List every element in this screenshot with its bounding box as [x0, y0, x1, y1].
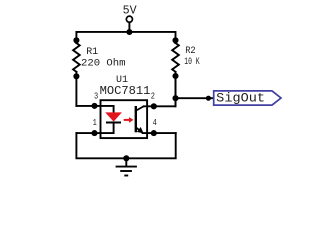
- svg-text:2: 2: [151, 90, 155, 101]
- svg-text:5V: 5V: [123, 3, 138, 17]
- svg-text:R2: R2: [185, 46, 196, 57]
- svg-text:SigOut: SigOut: [216, 90, 265, 105]
- svg-text:10 K: 10 K: [184, 57, 200, 68]
- svg-text:R1: R1: [86, 47, 98, 58]
- svg-text:4: 4: [153, 117, 157, 128]
- svg-text:220 Ohm: 220 Ohm: [81, 58, 126, 70]
- svg-text:3: 3: [94, 90, 98, 101]
- svg-text:1: 1: [93, 117, 97, 128]
- svg-text:MOC7811: MOC7811: [100, 84, 151, 98]
